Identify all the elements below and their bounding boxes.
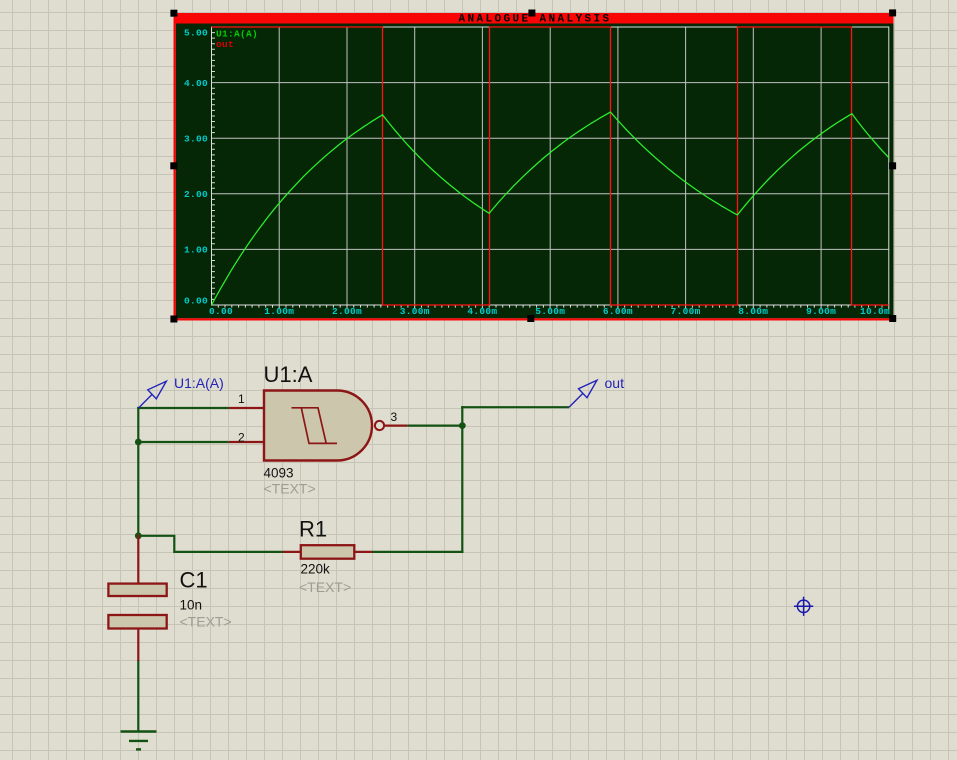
graph plot gridlines xyxy=(212,27,889,305)
svg-text:out: out xyxy=(216,39,234,50)
node: junction at gate output xyxy=(459,422,466,429)
wire: gate in2 horizontal xyxy=(137,441,229,443)
selection handles xyxy=(170,9,896,322)
origin marker crosshair xyxy=(794,597,813,616)
ground symbol xyxy=(121,732,157,750)
node: junction at C1/R1 xyxy=(135,532,142,539)
x axis labels xyxy=(209,306,890,317)
trace U1:A(A) (green) xyxy=(212,112,889,305)
svg-text:4093: 4093 xyxy=(264,466,294,481)
NAND gate U1:A pin 1 xyxy=(229,407,264,409)
resistor R1 pin left xyxy=(283,551,300,553)
svg-text:U1:A: U1:A xyxy=(264,362,313,387)
svg-text:1.00m: 1.00m xyxy=(264,306,294,317)
NAND gate output bubble xyxy=(375,421,384,430)
axis tick marks xyxy=(212,33,215,300)
svg-text:2.00m: 2.00m xyxy=(332,306,362,317)
svg-text:6.00m: 6.00m xyxy=(603,306,633,317)
svg-text:3.00m: 3.00m xyxy=(400,306,430,317)
NAND gate U1:A body xyxy=(264,391,372,461)
svg-text:<TEXT>: <TEXT> xyxy=(299,579,351,595)
capacitor C1 pin top xyxy=(137,535,139,583)
svg-text:7.00m: 7.00m xyxy=(671,306,701,317)
NAND gate schmitt symbol xyxy=(292,408,338,444)
svg-text:5.00m: 5.00m xyxy=(535,306,565,317)
wire: R1 right to vertical xyxy=(372,551,464,553)
svg-text:U1:A(A): U1:A(A) xyxy=(216,29,258,40)
svg-text:2.00: 2.00 xyxy=(184,189,208,200)
capacitor C1 plate top xyxy=(108,584,166,596)
wire: right vertical xyxy=(461,406,463,553)
svg-text:0.00: 0.00 xyxy=(209,306,233,317)
svg-text:<TEXT>: <TEXT> xyxy=(180,614,232,630)
svg-text:9.00m: 9.00m xyxy=(806,306,836,317)
NAND gate U1:A pin 3 xyxy=(384,425,407,427)
svg-text:1: 1 xyxy=(238,392,245,406)
wire: left vertical main xyxy=(137,407,139,537)
resistor R1 body xyxy=(301,545,355,559)
svg-text:U1:A(A): U1:A(A) xyxy=(174,375,224,391)
wire: out probe horizontal xyxy=(461,406,569,408)
graph plot border and axes xyxy=(212,27,889,305)
probe out arrow xyxy=(569,380,597,407)
svg-text:4.00: 4.00 xyxy=(184,78,208,89)
node: junction at in2 xyxy=(135,439,142,446)
graph widget background xyxy=(174,13,894,321)
wire: gate out to junction xyxy=(407,425,463,427)
svg-text:3: 3 xyxy=(391,410,398,424)
svg-text:3.00: 3.00 xyxy=(184,133,208,144)
svg-text:1.00: 1.00 xyxy=(184,245,208,256)
trace out (red square wave) xyxy=(212,27,889,305)
resistor R1 pin right xyxy=(355,551,372,553)
svg-text:5.00: 5.00 xyxy=(184,28,208,39)
wire: C1 bottom to ground xyxy=(137,660,139,732)
NAND gate U1:A pin 2 xyxy=(229,441,264,443)
svg-text:R1: R1 xyxy=(299,517,327,542)
svg-text:out: out xyxy=(605,375,625,391)
capacitor C1 pin bottom xyxy=(137,630,139,662)
svg-text:<TEXT>: <TEXT> xyxy=(264,480,316,496)
svg-text:8.00m: 8.00m xyxy=(738,306,768,317)
svg-text:C1: C1 xyxy=(180,568,208,593)
capacitor C1 plate bottom xyxy=(108,615,166,629)
svg-text:220k: 220k xyxy=(301,562,331,577)
svg-text:0.00: 0.00 xyxy=(184,295,208,306)
svg-text:2: 2 xyxy=(238,431,245,445)
wire: gate in1 horizontal xyxy=(137,407,229,409)
svg-text:10n: 10n xyxy=(180,598,203,613)
svg-text:4.00m: 4.00m xyxy=(467,306,497,317)
y axis labels xyxy=(184,28,208,307)
probe U1:A(A) arrow xyxy=(138,381,166,408)
svg-text:10.0m: 10.0m xyxy=(860,306,890,317)
wire: junction to R1 jog xyxy=(137,536,283,552)
